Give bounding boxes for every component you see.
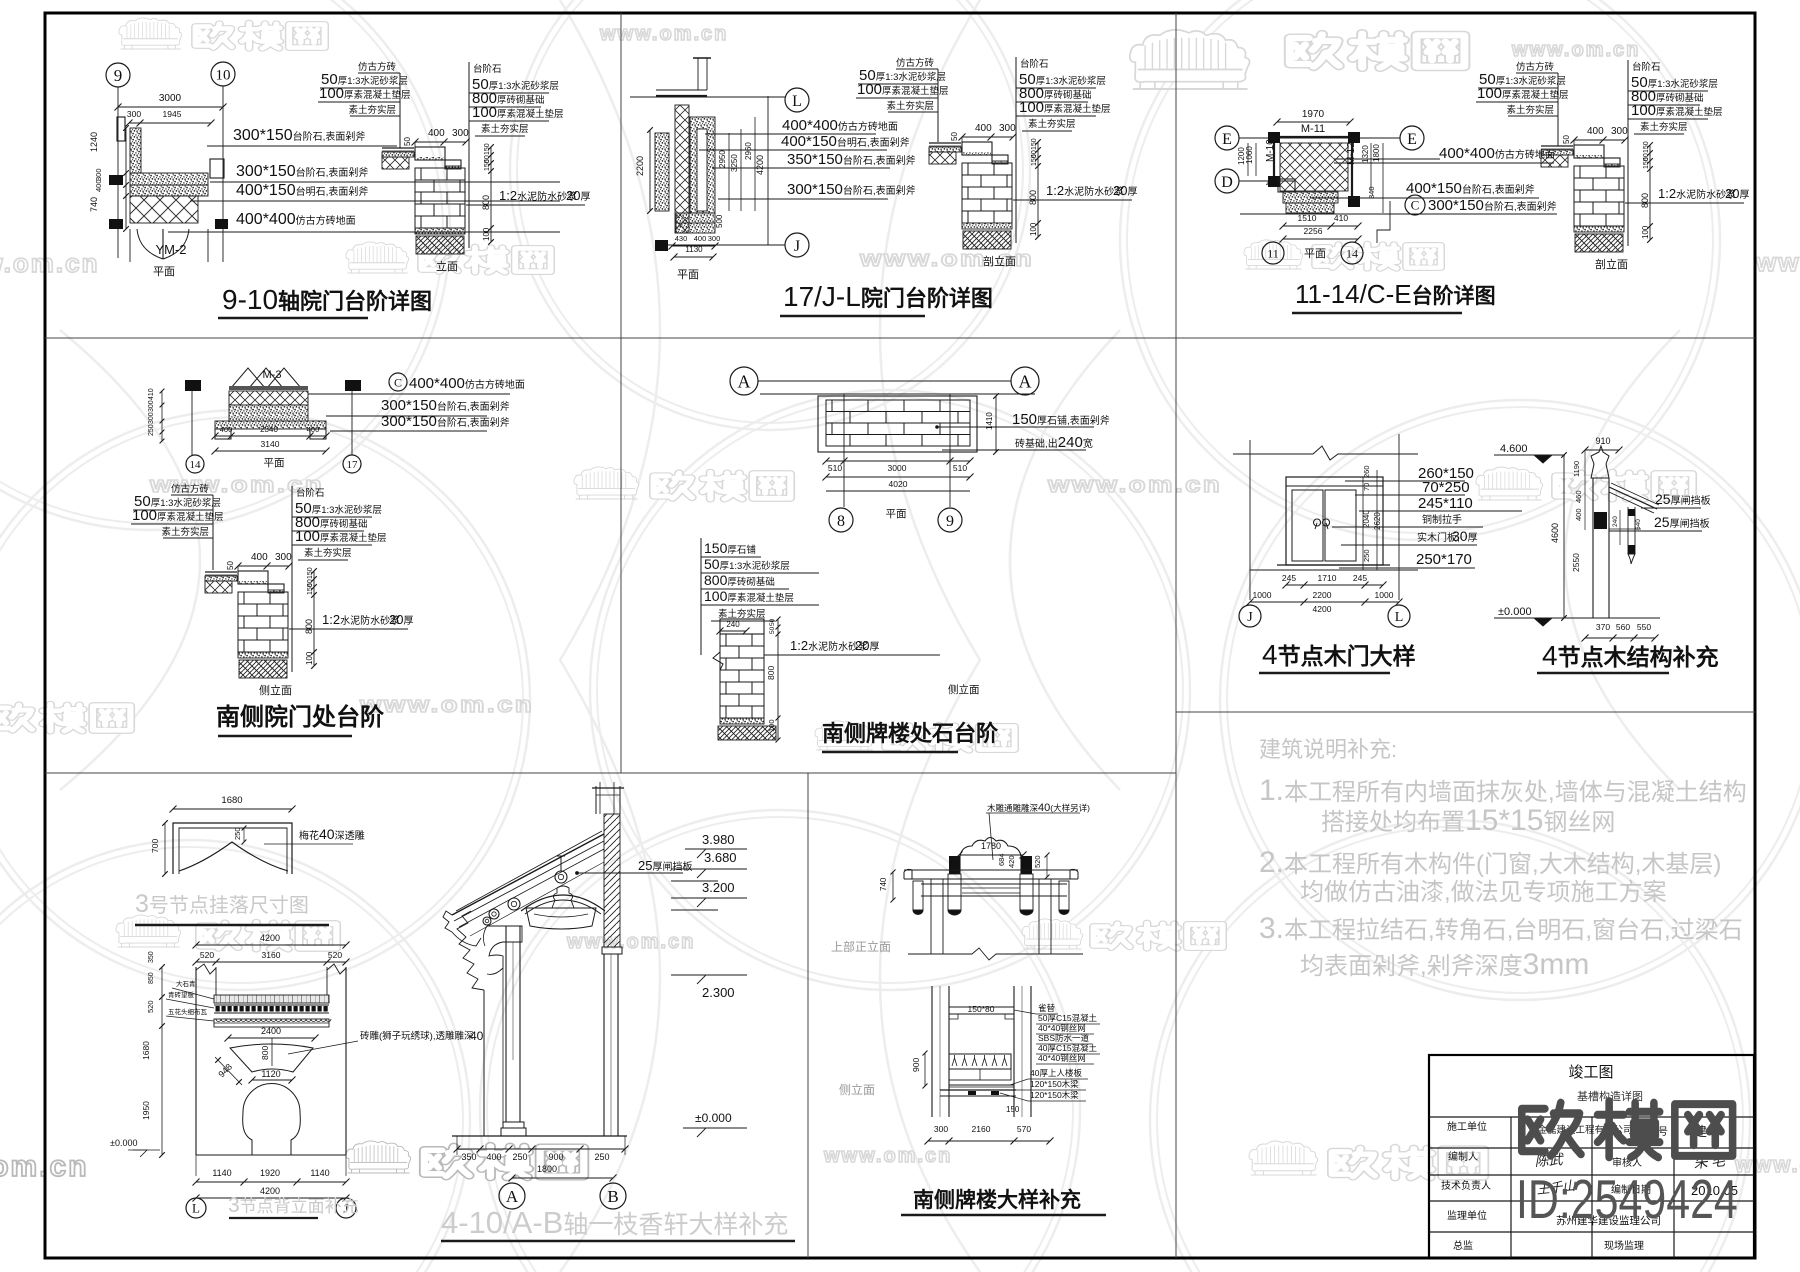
- arch beam 月梁: [521, 895, 605, 911]
- svg-text:100: 100: [1641, 225, 1650, 239]
- svg-text:2200: 2200: [1313, 590, 1332, 600]
- svg-text:M-10: M-10: [1265, 139, 1276, 162]
- door frame: [1286, 477, 1383, 565]
- svg-text:300: 300: [934, 1124, 948, 1134]
- 4600 dim: [1563, 455, 1565, 618]
- svg-text:100: 100: [767, 719, 776, 732]
- top post: [595, 786, 597, 814]
- svg-text:340: 340: [1367, 186, 1376, 199]
- wall column blocks: [109, 175, 123, 185]
- svg-text:370: 370: [1596, 622, 1610, 632]
- svg-text:300: 300: [999, 123, 1016, 134]
- svg-text:SBS防水一道: SBS防水一道: [1038, 1033, 1090, 1043]
- watermark sofa+logo row4-center: [815, 721, 874, 750]
- svg-text:250: 250: [148, 424, 155, 436]
- roof slopes: [452, 834, 604, 915]
- floor slab and beams: [949, 1084, 1014, 1086]
- leader labels mid-left plan: [389, 373, 407, 391]
- svg-text:www.om.cn: www.om.cn: [566, 931, 695, 953]
- svg-text:50: 50: [226, 561, 235, 570]
- svg-text:400*400仿古方砖地面: 400*400仿古方砖地面: [236, 211, 356, 228]
- svg-text:20厚: 20厚: [389, 612, 413, 627]
- svg-text:740: 740: [879, 877, 888, 891]
- svg-text:4200: 4200: [755, 155, 765, 175]
- svg-text:J: J: [1247, 610, 1253, 625]
- svg-text:梅花40深透雕: 梅花40深透雕: [299, 826, 365, 842]
- divider v x=1176: [1175, 13, 1177, 1258]
- 900 dim: [924, 1053, 926, 1086]
- svg-text:410: 410: [1334, 213, 1348, 223]
- svg-text:青砖望板: 青砖望板: [168, 990, 195, 999]
- beam lines below: [921, 883, 1067, 885]
- svg-text:±0.000: ±0.000: [1498, 606, 1532, 618]
- svg-text:150厚石铺,表面剁斧: 150厚石铺,表面剁斧: [1012, 411, 1110, 428]
- svg-text:4200: 4200: [260, 933, 280, 943]
- svg-text:70: 70: [1362, 483, 1371, 491]
- svg-text:3.680: 3.680: [704, 850, 737, 865]
- svg-text:C: C: [394, 375, 402, 389]
- svg-text:400*150台明石,表面剁斧: 400*150台明石,表面剁斧: [236, 182, 368, 199]
- svg-text:70*250: 70*250: [1422, 479, 1470, 496]
- svg-text:素土夯实层: 素土夯实层: [304, 547, 352, 559]
- svg-text:300: 300: [148, 412, 155, 424]
- 17JL left dim 2200: [649, 130, 651, 211]
- watermark sofa+logo row4 left-edge partial: [0, 704, 130, 731]
- svg-text:4节点木门大样: 4节点木门大样: [1262, 639, 1416, 670]
- svg-text:300: 300: [1611, 126, 1628, 137]
- plan brick apron: [818, 396, 977, 452]
- watermark sofa+logo row3-center: [574, 467, 639, 499]
- title block table: [1429, 1055, 1754, 1258]
- wall corner top-left: [656, 95, 707, 97]
- svg-text:J: J: [794, 238, 800, 255]
- svg-text:17/J-L院门台阶详图: 17/J-L院门台阶详图: [783, 281, 993, 312]
- svg-text:400: 400: [486, 1152, 501, 1162]
- svg-text:www.om.cn: www.om.cn: [1511, 39, 1640, 61]
- 17JL dims: [767, 96, 769, 245]
- svg-text:五花头细布瓦: 五花头细布瓦: [168, 1007, 208, 1016]
- svg-text:2550: 2550: [1571, 553, 1581, 572]
- svg-text:420: 420: [1007, 855, 1016, 868]
- watermark sofa+logo row2-right: [1244, 240, 1303, 269]
- svg-text:400: 400: [975, 123, 992, 134]
- divider h y=773 left: [45, 772, 1176, 774]
- svg-text:L: L: [792, 93, 802, 110]
- svg-text:素土夯实层: 素土夯实层: [1506, 104, 1554, 116]
- svg-text:800: 800: [766, 666, 776, 680]
- left column: [505, 926, 507, 1122]
- svg-text:150: 150: [484, 159, 491, 171]
- svg-text:南侧牌楼处石台阶: 南侧牌楼处石台阶: [822, 721, 999, 746]
- svg-text:www.om.cn: www.om.cn: [823, 1145, 952, 1167]
- hatched gable wall: [604, 814, 620, 947]
- svg-text:编制人: 编制人: [1448, 1150, 1478, 1163]
- door handles: [1314, 519, 1321, 529]
- svg-text:4200: 4200: [260, 1186, 280, 1196]
- svg-text:500: 500: [715, 214, 724, 228]
- svg-text:侧立面: 侧立面: [259, 683, 292, 697]
- watermark sofa+logo top-left: [119, 18, 182, 49]
- svg-text:300*150台阶石,表面剁斧: 300*150台阶石,表面剁斧: [236, 163, 368, 180]
- svg-text:245*110: 245*110: [1418, 495, 1473, 512]
- svg-text:3.980: 3.980: [702, 832, 735, 847]
- svg-text:245: 245: [1353, 573, 1367, 583]
- svg-text:948: 948: [216, 1062, 234, 1080]
- svg-text:1140: 1140: [310, 1168, 329, 1178]
- 11-14 step stipples: [1283, 192, 1338, 203]
- svg-text:剖立面: 剖立面: [983, 254, 1016, 268]
- left small dims: [1584, 450, 1586, 530]
- top beam 侧立面: [949, 1006, 1014, 1008]
- svg-text:20厚: 20厚: [1113, 183, 1137, 198]
- svg-text:17: 17: [347, 459, 359, 471]
- svg-text:400*150台明石,表面剁斧: 400*150台明石,表面剁斧: [781, 133, 910, 150]
- svg-text:1060: 1060: [1245, 146, 1254, 164]
- svg-text:大石青: 大石青: [176, 979, 196, 988]
- dark watermark 欧模网: [1522, 1101, 1733, 1157]
- svg-text:900: 900: [911, 1058, 921, 1072]
- svg-text:100: 100: [482, 227, 491, 241]
- svg-text:300: 300: [275, 552, 292, 563]
- svg-text:1800: 1800: [537, 1164, 557, 1174]
- svg-text:3000: 3000: [888, 463, 907, 473]
- svg-text:审核人: 审核人: [1612, 1156, 1642, 1169]
- divider v x=621: [620, 13, 622, 773]
- brick carving fan: [230, 1044, 313, 1072]
- svg-text:3250: 3250: [730, 154, 739, 172]
- 948 diagonal dim: [215, 1057, 242, 1085]
- svg-text:150: 150: [1643, 157, 1650, 169]
- svg-text:3000: 3000: [159, 93, 182, 104]
- svg-text:20厚: 20厚: [855, 638, 879, 653]
- svg-text:25厚闸挡板: 25厚闸挡板: [638, 858, 692, 873]
- svg-text:300*150台阶石,表面剁斧: 300*150台阶石,表面剁斧: [787, 181, 916, 198]
- svg-text:1710: 1710: [1318, 573, 1337, 583]
- svg-text:1.本工程所有内墙面抹灰处,墙体与混凝土结构: 1.本工程所有内墙面抹灰处,墙体与混凝土结构: [1259, 774, 1747, 807]
- svg-text:2200: 2200: [635, 156, 645, 176]
- svg-text:仿古方砖: 仿古方砖: [358, 61, 397, 73]
- svg-text:684: 684: [997, 853, 1006, 866]
- svg-text:3节点背立面补充: 3节点背立面补充: [228, 1194, 359, 1217]
- svg-text:150: 150: [1006, 1105, 1020, 1114]
- svg-text:100厚素混凝土垫层: 100厚素混凝土垫层: [704, 588, 794, 604]
- svg-text:150: 150: [307, 583, 314, 595]
- svg-text:竣工图: 竣工图: [1568, 1064, 1613, 1081]
- svg-text:砖雕(狮子玩绣球),透雕雕深: 砖雕(狮子玩绣球),透雕雕深: [360, 1030, 474, 1042]
- lattice band: [949, 1054, 1011, 1069]
- svg-text:3160: 3160: [262, 950, 281, 960]
- svg-text:40: 40: [470, 1029, 484, 1043]
- roof slope: [1609, 487, 1657, 509]
- svg-text:2160: 2160: [972, 1124, 991, 1134]
- svg-text:2.300: 2.300: [702, 985, 735, 1000]
- roof tile band: [214, 995, 329, 1003]
- svg-text:A: A: [506, 1187, 519, 1206]
- svg-text:240: 240: [1612, 516, 1619, 527]
- svg-text:250: 250: [1362, 549, 1371, 562]
- svg-text:2040: 2040: [1362, 510, 1371, 528]
- svg-text:均表面剁斧,剁斧深度3mm: 均表面剁斧,剁斧深度3mm: [1300, 948, 1589, 981]
- svg-text:40*40钢丝网: 40*40钢丝网: [1038, 1023, 1086, 1033]
- 1410 dim: [995, 396, 997, 452]
- svg-text:总监: 总监: [1453, 1239, 1473, 1252]
- left dim chain: [125, 128, 127, 229]
- svg-text:www.om: www.om: [1755, 247, 1800, 277]
- svg-text:1970: 1970: [1302, 109, 1325, 120]
- svg-text:910: 910: [1595, 436, 1610, 446]
- guualuo pointed arch: [179, 842, 288, 871]
- svg-text:150: 150: [1643, 141, 1650, 153]
- drawing 9-10轴院门台阶详图 plan: [106, 63, 130, 87]
- svg-text:250*170: 250*170: [1416, 551, 1472, 568]
- svg-text:平面: 平面: [153, 266, 175, 278]
- svg-text:4200: 4200: [1313, 604, 1332, 614]
- bottom dim rows: [195, 1155, 197, 1176]
- svg-text:250: 250: [594, 1152, 609, 1162]
- svg-text:4.600: 4.600: [1500, 443, 1528, 455]
- svg-text:300: 300: [127, 109, 141, 119]
- svg-text:搭接处均布置15*15钢丝网: 搭接处均布置15*15钢丝网: [1321, 804, 1615, 837]
- svg-text:A: A: [1019, 372, 1032, 392]
- svg-text:YM-2: YM-2: [155, 242, 186, 257]
- svg-text:素土夯实层: 素土夯实层: [886, 100, 934, 112]
- svg-text:510: 510: [953, 463, 967, 473]
- svg-text:20厚: 20厚: [1725, 186, 1749, 201]
- svg-text:2.本工程所有木构件(门窗,大木结构,木基层): 2.本工程所有木构件(门窗,大木结构,木基层): [1259, 846, 1721, 879]
- drawing 4节点木门大样: [1249, 440, 1251, 600]
- svg-text:1000: 1000: [1253, 590, 1272, 600]
- svg-text:850: 850: [148, 972, 155, 984]
- svg-text:400*400仿古方砖地面: 400*400仿古方砖地面: [409, 375, 525, 392]
- svg-text:900: 900: [548, 1152, 563, 1162]
- svg-text:30厚: 30厚: [1452, 528, 1478, 544]
- svg-text:3140: 3140: [261, 439, 280, 449]
- svg-text:9: 9: [946, 513, 954, 530]
- svg-text:300: 300: [452, 128, 469, 139]
- svg-text:350*150台阶石,表面剁斧: 350*150台阶石,表面剁斧: [787, 151, 916, 168]
- svg-text:800: 800: [481, 195, 491, 210]
- main facade rect: [195, 967, 197, 1155]
- drawing 牌楼 侧立面: [931, 986, 933, 1117]
- svg-text:300*150台阶石,表面剁斧: 300*150台阶石,表面剁斧: [1428, 197, 1557, 214]
- svg-text:300*150台阶石,表面剁斧: 300*150台阶石,表面剁斧: [381, 397, 510, 414]
- mid-center elevation stack: [700, 538, 702, 655]
- svg-text:9: 9: [114, 66, 123, 85]
- svg-text:L: L: [1395, 610, 1404, 625]
- svg-text:1130: 1130: [685, 245, 703, 254]
- ground line: [452, 1135, 627, 1137]
- svg-text:素土夯实层: 素土夯实层: [1640, 121, 1688, 133]
- svg-text:50: 50: [1562, 135, 1571, 144]
- svg-text:150: 150: [1031, 138, 1038, 150]
- svg-text:40厚C15混凝土: 40厚C15混凝土: [1038, 1043, 1098, 1053]
- svg-text:A: A: [738, 372, 751, 392]
- svg-text:www.om.cn: www.om.cn: [0, 248, 100, 278]
- svg-text:800: 800: [1640, 193, 1650, 208]
- svg-text:400*400仿古方砖地面: 400*400仿古方砖地面: [782, 117, 898, 134]
- watermark sofa+logo top-center (big): [1130, 30, 1250, 89]
- svg-text:M-11: M-11: [1301, 123, 1325, 135]
- svg-text:350: 350: [148, 951, 155, 963]
- svg-text:520: 520: [1033, 855, 1042, 868]
- svg-text:B: B: [607, 1187, 618, 1206]
- svg-text:10: 10: [216, 67, 231, 83]
- svg-text:400: 400: [428, 128, 445, 139]
- svg-text:仿古方砖: 仿古方砖: [171, 483, 210, 495]
- long verticals: [930, 879, 932, 954]
- axes: [191, 391, 193, 455]
- svg-text:50: 50: [950, 132, 959, 141]
- svg-text:40*40钢丝网: 40*40钢丝网: [1038, 1053, 1086, 1063]
- plan bands: [229, 386, 308, 390]
- svg-text:仿古方砖: 仿古方砖: [896, 57, 935, 69]
- svg-text:800: 800: [304, 619, 314, 634]
- svg-text:1140: 1140: [212, 1168, 231, 1178]
- svg-text:400: 400: [1574, 508, 1583, 521]
- svg-text:260: 260: [1362, 465, 1371, 478]
- svg-text:1190: 1190: [1572, 461, 1581, 477]
- 11-14 crosshatch floor: [1280, 143, 1348, 191]
- 11-14 plan walls: [1268, 136, 1358, 138]
- svg-text:1320: 1320: [1361, 145, 1370, 163]
- right wall below: [603, 954, 605, 1136]
- svg-text:平面: 平面: [886, 508, 907, 520]
- svg-text:技术负责人: 技术负责人: [1441, 1179, 1491, 1192]
- divider h y=338: [45, 337, 1755, 339]
- svg-text:±0.000: ±0.000: [110, 1138, 137, 1148]
- svg-text:砖基础,出240宽: 砖基础,出240宽: [1015, 434, 1093, 451]
- main beam with curled ends: [904, 869, 912, 879]
- svg-text:350: 350: [461, 1152, 476, 1162]
- svg-text:800: 800: [1028, 190, 1038, 205]
- svg-text:D: D: [1221, 174, 1233, 191]
- svg-text:40厚上人楼板: 40厚上人楼板: [1030, 1068, 1082, 1078]
- svg-text:400: 400: [220, 425, 233, 434]
- svg-text:www.om.cn: www.om.cn: [599, 23, 728, 45]
- door sill: [1277, 564, 1390, 566]
- svg-text:150: 150: [1031, 154, 1038, 166]
- svg-text:现场监理: 现场监理: [1604, 1239, 1644, 1252]
- svg-text:建筑说明补充:: 建筑说明补充:: [1259, 737, 1397, 762]
- svg-text:250: 250: [512, 1152, 527, 1162]
- svg-text:100: 100: [1029, 222, 1038, 236]
- svg-text:150*80: 150*80: [968, 1004, 995, 1014]
- svg-text:1510: 1510: [1298, 213, 1317, 223]
- svg-text:400: 400: [94, 179, 103, 192]
- svg-text:560: 560: [1616, 622, 1630, 632]
- svg-text:9-10轴院门台阶详图: 9-10轴院门台阶详图: [222, 284, 432, 315]
- svg-text:4-10/A-B轴一枝香轩大样补充: 4-10/A-B轴一枝香轩大样补充: [441, 1205, 788, 1240]
- break line bottom: [908, 948, 1083, 960]
- svg-text:430: 430: [675, 234, 688, 243]
- watermark sofa+logo bottom-right of 牌楼: [1249, 1141, 1318, 1175]
- svg-text:E: E: [1222, 131, 1232, 148]
- svg-text:300: 300: [708, 234, 721, 243]
- top break line: [1233, 446, 1418, 460]
- svg-text:L: L: [192, 1201, 200, 1216]
- drawing 11-14/C-E台阶详图 plan: [1215, 126, 1239, 150]
- svg-text:2256: 2256: [1304, 226, 1323, 236]
- svg-text:施工单位: 施工单位: [1447, 1120, 1487, 1133]
- svg-text:640: 640: [1635, 519, 1642, 530]
- left gable cornice 墀头: [457, 911, 484, 990]
- outer hanging posts: [913, 881, 923, 910]
- svg-text:1780: 1780: [981, 841, 1001, 851]
- svg-text:木雕通雕雕深40(大样另详): 木雕通雕雕深40(大样另详): [987, 802, 1090, 814]
- door YM-2: [129, 229, 131, 262]
- svg-text:1000: 1000: [1375, 590, 1394, 600]
- svg-text:11-14/C-E台阶详图: 11-14/C-E台阶详图: [1295, 279, 1496, 309]
- svg-text:www.om.cn: www.om.cn: [1047, 473, 1222, 498]
- svg-text:1680: 1680: [141, 1041, 151, 1060]
- black block on column: [1594, 512, 1607, 529]
- svg-text:ID:2549424: ID:2549424: [1516, 1169, 1738, 1230]
- svg-text:400: 400: [694, 234, 707, 243]
- svg-text:520: 520: [200, 950, 214, 960]
- watermark sofa+logo row2-left: [346, 242, 409, 273]
- inner posts with black heads: [949, 856, 960, 874]
- watermark sofa+logo row5-left (title overlay): [116, 915, 181, 947]
- svg-text:2960: 2960: [744, 142, 753, 160]
- svg-text:14: 14: [190, 459, 202, 471]
- svg-text:50厚C15混凝土: 50厚C15混凝土: [1038, 1013, 1098, 1023]
- svg-text:雀替: 雀替: [1038, 1003, 1056, 1013]
- light watermark arcs: [0, 0, 450, 530]
- svg-text:南侧院门处台阶: 南侧院门处台阶: [216, 703, 384, 731]
- svg-text:素土夯实层: 素土夯实层: [718, 608, 766, 620]
- eave tip profile: [443, 911, 452, 932]
- divider h y=712 right: [1176, 711, 1755, 713]
- svg-text:素土夯实层: 素土夯实层: [348, 104, 396, 116]
- purlin dots: [555, 871, 567, 883]
- svg-text:25厚闸挡板: 25厚闸挡板: [1654, 514, 1710, 530]
- svg-text:800: 800: [260, 1046, 270, 1060]
- svg-text:150厚石铺: 150厚石铺: [704, 540, 756, 556]
- svg-text:台阶石: 台阶石: [1020, 58, 1049, 70]
- svg-text:400*150台阶石,表面剁斧: 400*150台阶石,表面剁斧: [1406, 180, 1535, 197]
- svg-text:120*150木梁: 120*150木梁: [1030, 1090, 1079, 1100]
- svg-text:150: 150: [307, 567, 314, 579]
- right dim chains door: [1362, 477, 1364, 570]
- svg-text:4节点木结构补充: 4节点木结构补充: [1542, 640, 1719, 671]
- svg-text:上部正立面: 上部正立面: [831, 939, 891, 954]
- svg-text:监理单位: 监理单位: [1447, 1209, 1487, 1222]
- svg-text:400*400仿古方砖地面: 400*400仿古方砖地面: [1439, 145, 1555, 162]
- svg-text:4600: 4600: [1550, 523, 1560, 543]
- svg-text:250: 250: [233, 827, 242, 840]
- svg-text:300*150台阶石,表面剁斧: 300*150台阶石,表面剁斧: [233, 127, 365, 144]
- svg-text:460: 460: [1574, 490, 1583, 503]
- svg-text:M-3: M-3: [263, 369, 282, 381]
- small dims near post: [1619, 510, 1621, 545]
- svg-text:300: 300: [148, 400, 155, 412]
- svg-text:立面: 立面: [436, 259, 458, 273]
- svg-text:平面: 平面: [264, 457, 285, 469]
- vase strut: [552, 886, 574, 908]
- svg-text:台阶石: 台阶石: [1632, 61, 1661, 73]
- svg-text:平面: 平面: [1304, 248, 1326, 260]
- svg-text:2400: 2400: [261, 1026, 281, 1036]
- 17JL vertical strips: [655, 133, 669, 211]
- keyhole opening: [243, 1084, 301, 1156]
- svg-text:2950: 2950: [718, 150, 727, 168]
- bottom dims mid-center: [826, 460, 970, 462]
- 11-14 section cut steps: [1377, 201, 1390, 243]
- watermark sofa+logo bottom-center (medium): [346, 1141, 411, 1173]
- svg-text:平面: 平面: [677, 269, 699, 281]
- svg-text:素土夯实层: 素土夯实层: [161, 526, 209, 538]
- svg-text:400: 400: [251, 552, 268, 563]
